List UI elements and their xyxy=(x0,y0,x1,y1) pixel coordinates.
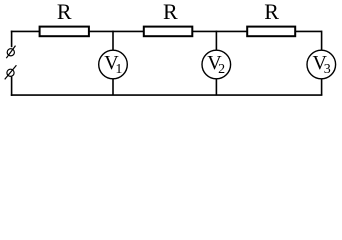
svg-text:R: R xyxy=(163,0,178,24)
wire V2 top stub xyxy=(215,31,217,51)
svg-text:3: 3 xyxy=(324,62,331,77)
voltmeter V3 xyxy=(307,50,336,79)
wire V1 top stub xyxy=(112,31,114,51)
voltmeter V1 xyxy=(99,50,128,79)
wire left vertical (bottom terminal to bottom bus) xyxy=(11,77,13,96)
wire V2 bottom stub xyxy=(215,79,217,95)
terminal (bottom input, slashed circle) xyxy=(5,65,17,79)
wire V1 bottom stub xyxy=(112,79,114,95)
wire left vertical (top terminal to top bus) xyxy=(11,31,13,48)
resistor R3 xyxy=(247,27,295,37)
resistor R1 xyxy=(40,27,89,37)
resistor R2 xyxy=(144,27,193,37)
terminal (top input, slashed circle) xyxy=(6,46,15,59)
svg-text:2: 2 xyxy=(218,62,225,77)
wire V3 bottom stub xyxy=(321,79,323,95)
svg-text:1: 1 xyxy=(115,62,122,77)
wire bottom bus xyxy=(11,94,323,96)
svg-text:R: R xyxy=(264,0,279,24)
wire right vertical (top bus corner to V3) xyxy=(321,31,323,51)
voltmeter V2 xyxy=(202,50,231,79)
wire top bus xyxy=(11,30,322,32)
svg-text:R: R xyxy=(57,0,72,24)
